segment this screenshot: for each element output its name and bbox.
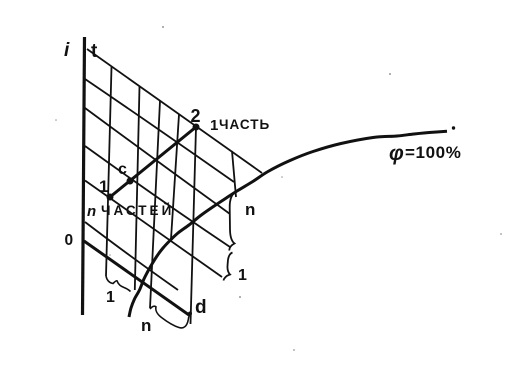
dot at curve end: [452, 126, 455, 129]
isenthalp S2: [85, 79, 234, 182]
process line 1-2 (thick): [110, 127, 196, 197]
svg-text:0: 0: [65, 232, 74, 249]
vertical d-const line V1: [106, 67, 112, 276]
svg-text:1: 1: [99, 177, 108, 196]
svg-text:1: 1: [210, 117, 218, 134]
isenthalp S4: [85, 146, 230, 247]
scan noise specks: [55, 26, 502, 351]
point d dot: [188, 312, 192, 316]
svg-text:1: 1: [238, 267, 247, 284]
vertical d-const line V6 (short, above brace n): [232, 151, 236, 197]
svg-text:d: d: [195, 297, 207, 318]
right brace 1 (between S4 and S5 ends): [224, 253, 233, 281]
vertical d-const line V5 (through points 2 and d): [191, 128, 197, 325]
isenthalp S1 (top slanted line through point 2): [87, 49, 262, 173]
point 1: [107, 194, 114, 201]
svg-text:i: i: [64, 40, 70, 61]
saturation curve phi=100%: [129, 131, 447, 317]
vertical d-const line V3: [150, 101, 160, 308]
svg-text:ЧАСТЬ: ЧАСТЬ: [219, 117, 270, 132]
vertical d-const line V2: [135, 87, 140, 291]
isenthalp S6: [85, 222, 178, 290]
svg-text:n: n: [245, 200, 255, 219]
isenthalp S3: [85, 108, 230, 214]
vertical d-const line V4: [171, 115, 179, 240]
svg-text:2: 2: [191, 106, 201, 126]
svg-text:φ: φ: [389, 142, 404, 165]
svg-text:n: n: [141, 316, 151, 335]
point c: [127, 178, 134, 185]
isenthalp S5 (through point 1): [85, 181, 222, 278]
svg-text:n: n: [87, 203, 96, 220]
svg-text:=100%: =100%: [405, 143, 461, 162]
bottom brace n (between V3 bottom and d): [150, 306, 190, 328]
d axis (oblique line 0-d): [84, 241, 189, 315]
i axis (vertical enthalpy axis): [83, 37, 85, 315]
right brace n (between S1 and S4 ends): [229, 191, 238, 251]
point 2: [193, 124, 200, 131]
bottom small brace 1 (between V1 and V2): [106, 276, 131, 292]
svg-text:ЧАСТЕЙ: ЧАСТЕЙ: [101, 203, 174, 218]
svg-text:1: 1: [106, 289, 115, 306]
svg-text:c: c: [118, 161, 127, 178]
